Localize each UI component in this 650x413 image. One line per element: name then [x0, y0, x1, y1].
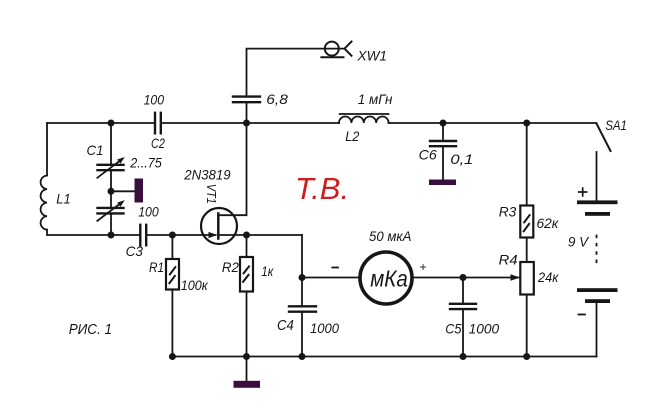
- wire gate (C3 to VT1): [148, 234, 216, 236]
- svg-text:100: 100: [138, 204, 159, 220]
- svg-text:24к: 24к: [537, 269, 559, 285]
- svg-text:2N3819: 2N3819: [183, 167, 231, 183]
- svg-text:1000: 1000: [469, 321, 500, 337]
- wire meter right lead: [414, 277, 520, 279]
- svg-text:VT1: VT1: [204, 184, 219, 204]
- battery cell 1 short plate: [585, 212, 610, 216]
- wire R3 top lead: [526, 123, 528, 206]
- wire top rail middle segment (C2 to L2): [162, 122, 339, 124]
- node R4 bottom: [523, 353, 530, 360]
- capacitor C4: [289, 306, 316, 311]
- battery cell 1 long plate: [577, 200, 618, 204]
- connector XW1 socket circle: [325, 42, 339, 56]
- svg-text:R3: R3: [499, 204, 517, 220]
- wire C1 top lead: [110, 123, 112, 164]
- svg-text:1 мГн: 1 мГн: [358, 91, 393, 107]
- transistor VT1 source line: [218, 234, 302, 236]
- wire meter left lead: [302, 277, 359, 279]
- node C4 top: [299, 274, 306, 281]
- wire top rail left segment (L1 top to C2): [47, 122, 154, 124]
- svg-text:2...75: 2...75: [129, 155, 162, 171]
- svg-text:C5: C5: [445, 321, 461, 337]
- transistor VT1 drain line: [218, 123, 246, 215]
- connector XW1 plug fork: [345, 42, 352, 56]
- label - at meter left: [332, 267, 338, 269]
- wire 6.8 cap lower lead: [246, 103, 248, 123]
- wire C4 bottom lead: [301, 313, 303, 357]
- wire R1 top lead: [171, 235, 173, 259]
- svg-text:L1: L1: [56, 191, 71, 207]
- svg-text:C3: C3: [126, 243, 143, 259]
- wire C1 bottom lead: [110, 214, 112, 235]
- node C4 bottom: [299, 353, 306, 360]
- wire source node down to meter line: [301, 235, 303, 278]
- wire C6 bottom lead: [442, 147, 444, 180]
- svg-text:R4: R4: [499, 252, 518, 268]
- svg-text:100: 100: [144, 92, 165, 108]
- battery dotted link: [596, 236, 598, 265]
- wire left vertical L1 top lead: [46, 123, 48, 176]
- svg-text:50 мкА: 50 мкА: [369, 228, 411, 244]
- wire R1 bottom lead: [171, 290, 173, 357]
- wire R3-R4 link: [526, 238, 528, 263]
- capacitor C2: [155, 113, 161, 134]
- capacitor C6: [430, 141, 456, 146]
- svg-text:C1: C1: [87, 142, 104, 158]
- svg-text:C6: C6: [419, 147, 437, 163]
- wire C1 middle: [110, 171, 112, 207]
- wire R2 top lead: [246, 235, 248, 257]
- node C6: [440, 120, 447, 127]
- node R1 top: [169, 232, 176, 239]
- node R1 bottom: [169, 353, 176, 360]
- battery - sign: [579, 314, 586, 316]
- R4 wiper arrow: [511, 274, 521, 280]
- capacitor C3: [140, 225, 146, 246]
- resistor R3: [520, 206, 533, 238]
- node C5 bottom: [460, 353, 467, 360]
- wire ground stub: [246, 357, 248, 382]
- battery + sign: [579, 188, 587, 196]
- svg-text:C4: C4: [277, 317, 294, 334]
- wire C1 rotor stub: [111, 190, 135, 192]
- svg-text:мКа: мКа: [370, 266, 408, 292]
- svg-text:R2: R2: [222, 259, 239, 275]
- wire antenna branch to XW1: [247, 49, 345, 96]
- resistor R4 (potentiometer): [520, 262, 534, 295]
- transistor VT1 circle: [201, 208, 237, 244]
- ground bar (C1 rotor): [135, 179, 144, 203]
- wire R4 bottom lead: [526, 295, 528, 357]
- svg-text:1к: 1к: [261, 263, 274, 279]
- svg-text:Т.В.: Т.В.: [295, 171, 349, 206]
- battery cell 2 short plate: [585, 299, 610, 303]
- svg-text:C2: C2: [151, 135, 165, 151]
- switch SA1 arm: [597, 124, 611, 152]
- svg-text:9 V: 9 V: [568, 234, 590, 250]
- node R2 top: [243, 232, 250, 239]
- node ground stub: [243, 353, 250, 360]
- ground bar (C6): [429, 180, 456, 186]
- connector XW1 underline: [321, 56, 343, 58]
- gate arrow of VT1: [209, 232, 218, 238]
- resistor R2: [240, 257, 253, 292]
- node C1 mid: [108, 188, 115, 195]
- node C1 top: [108, 120, 115, 127]
- svg-text:XW1: XW1: [356, 49, 387, 64]
- ground bar (main): [234, 381, 261, 388]
- svg-text:R1: R1: [149, 259, 164, 275]
- capacitor C1 section 1 (variable, top): [98, 165, 124, 170]
- svg-text:100к: 100к: [181, 277, 209, 293]
- capacitor C5: [450, 304, 476, 309]
- inductor L2: [339, 116, 389, 123]
- resistor R1: [166, 259, 179, 290]
- inductor L2 core line: [340, 113, 389, 115]
- wire top rail right segment (L2 to SA1): [389, 122, 597, 124]
- capacitor 6.8: [233, 97, 260, 103]
- wire C5 top lead: [462, 278, 464, 303]
- node R3 top: [523, 120, 530, 127]
- wire R2 bottom lead: [246, 292, 248, 357]
- svg-text:1000: 1000: [310, 320, 339, 336]
- battery cell 2 long plate: [577, 288, 618, 292]
- arrow C1 section 1: [97, 160, 120, 178]
- wire bottom rail: [172, 356, 596, 358]
- svg-text:SA1: SA1: [605, 117, 627, 133]
- svg-text:РИС. 1: РИС. 1: [69, 322, 112, 338]
- wire SA1 to battery: [596, 152, 598, 200]
- wire C6 top lead: [442, 123, 444, 140]
- wire L1 bottom lead: [47, 230, 140, 235]
- svg-text:0,1: 0,1: [450, 151, 473, 167]
- capacitor C1 section 2 (variable, bottom): [98, 208, 124, 214]
- svg-text:L2: L2: [345, 128, 359, 144]
- node C5 top: [460, 274, 467, 281]
- node C1 bottom: [108, 232, 115, 239]
- wire battery bottom lead: [596, 303, 598, 357]
- meter мКа circle: [360, 252, 412, 304]
- transistor VT1 channel bar: [217, 214, 220, 239]
- svg-text:6,8: 6,8: [266, 91, 288, 107]
- arrow C1 section 2: [97, 203, 120, 221]
- inductor L1: [41, 176, 47, 230]
- node drain on top rail: [243, 120, 250, 127]
- svg-text:62к: 62к: [537, 215, 560, 231]
- wire C4 top lead: [301, 278, 303, 306]
- svg-text:+: +: [419, 260, 426, 274]
- wire C5 bottom lead: [462, 310, 464, 356]
